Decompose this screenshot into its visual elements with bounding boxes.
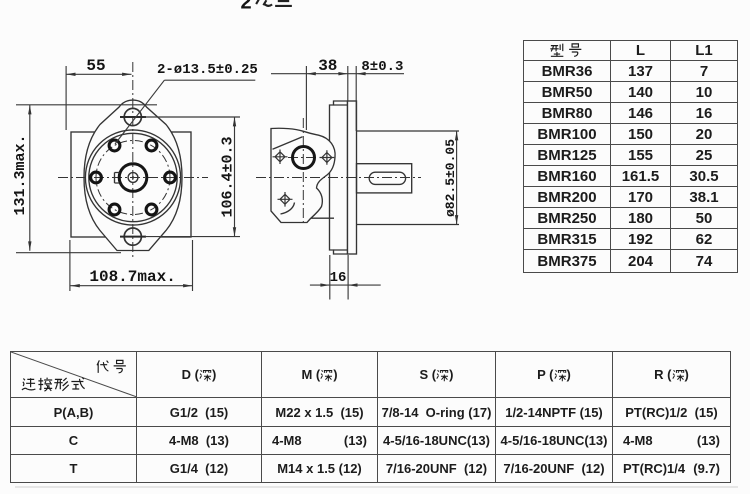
- svg-text:2: 2: [240, 0, 252, 16]
- svg-text:8±0.3: 8±0.3: [361, 59, 403, 75]
- svg-text:131.3max.: 131.3max.: [12, 134, 29, 215]
- svg-text:106.4±0.3: 106.4±0.3: [220, 136, 237, 217]
- svg-text:16: 16: [330, 270, 347, 286]
- svg-text:ø82.5±0.05: ø82.5±0.05: [443, 139, 458, 217]
- svg-text:2-ø13.5±0.25: 2-ø13.5±0.25: [157, 62, 258, 78]
- svg-text:38: 38: [318, 57, 337, 75]
- svg-text:108.7max.: 108.7max.: [89, 268, 175, 286]
- svg-text:55: 55: [86, 57, 105, 75]
